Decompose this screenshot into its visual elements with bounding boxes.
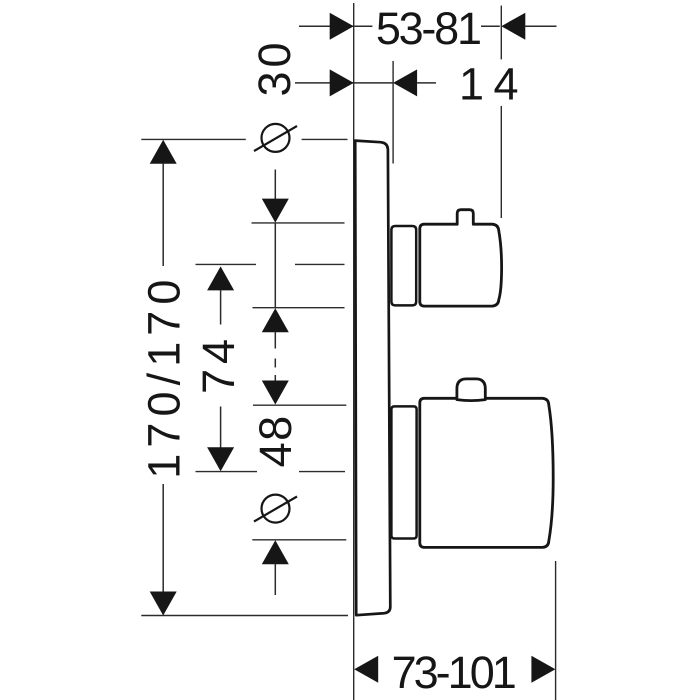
label 74 (rotated)	[193, 334, 244, 394]
label 30 (rotated)	[249, 38, 300, 96]
lower sleeve bottom extension line (y=539.8)	[252, 539, 346, 541]
extension line x=393.1 (plate front)	[392, 61, 394, 164]
dimension 53-81 horizontal	[299, 13, 557, 40]
top extension line (plate top, y=139.4)	[141, 138, 347, 140]
label 48 (rotated)	[250, 414, 301, 467]
svg-text:1: 1	[459, 59, 484, 110]
extension line x=555.6 (lower handle front)	[555, 561, 557, 700]
lower phi (diameter) symbol	[254, 495, 297, 523]
dimension 14 horizontal	[295, 69, 436, 96]
lower handle top extension line (y=405.2)	[253, 404, 346, 406]
svg-text:73-101: 73-101	[392, 647, 515, 698]
dimension 74 vertical line	[207, 266, 234, 471]
lower handle	[420, 398, 553, 547]
lower sleeve	[391, 406, 416, 538]
label 170/170 (rotated)	[139, 273, 190, 478]
upper handle axis line (y=264.4)	[196, 263, 345, 265]
label 73-101	[392, 647, 515, 698]
label 4	[493, 59, 518, 110]
svg-text:30: 30	[249, 38, 300, 96]
svg-text:4: 4	[493, 59, 518, 110]
dimension 170/170 vertical line	[150, 140, 177, 616]
svg-text:53-81: 53-81	[376, 3, 480, 54]
svg-text:48: 48	[250, 414, 301, 467]
plate outline	[355, 141, 390, 616]
dimension 48 vertical line	[262, 223, 289, 405]
bottom extension line (plate bottom, y=615.5)	[141, 615, 348, 617]
svg-text:170/170: 170/170	[139, 273, 190, 478]
lower handle dome knob	[457, 379, 485, 401]
svg-text:74: 74	[193, 334, 244, 394]
upper handle top extension line (y=222.9)	[252, 222, 345, 224]
upper handle with tab	[420, 210, 502, 306]
label 1	[459, 59, 484, 110]
dimension 73-101 horizontal	[354, 656, 555, 683]
wall line	[353, 3, 355, 700]
lower phi leader arrow (to sleeve bottom)	[262, 540, 289, 595]
lower handle axis line (y=471.6)	[196, 471, 346, 473]
upper handle bottom extension line (y=307.7)	[253, 307, 345, 309]
dimension 30 leader arrow (phi to handle top)	[262, 170, 289, 223]
label 53-81	[376, 3, 480, 54]
upper phi (diameter) symbol	[254, 124, 297, 152]
upper sleeve	[391, 226, 416, 305]
extension line x=501.3 (upper handle front)	[500, 6, 502, 218]
